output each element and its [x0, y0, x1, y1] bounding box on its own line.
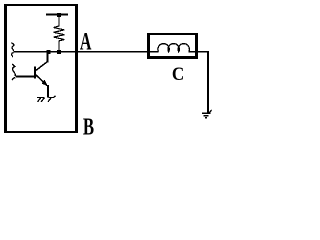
input squiggle base wire — [12, 64, 15, 80]
resistor R1 — [54, 15, 65, 52]
input squiggle node A wire — [11, 43, 14, 58]
block B outline — [4, 4, 78, 133]
svg-text:A: A — [80, 27, 92, 56]
component C box — [147, 33, 198, 59]
junction dot collector — [47, 50, 51, 54]
chassis ground — [37, 96, 55, 102]
inductor coil — [158, 44, 190, 52]
node A wire — [14, 51, 159, 53]
transistor Q1 emitter — [36, 75, 47, 86]
supply rail wire — [46, 14, 68, 16]
output wire vertical — [207, 51, 209, 113]
svg-text:B: B — [83, 115, 94, 140]
output wire horizontal — [189, 51, 209, 53]
base wire — [15, 76, 34, 78]
svg-text:C: C — [172, 63, 184, 84]
emitter ground wire — [47, 85, 49, 98]
junction dot rail — [57, 13, 61, 17]
transistor Q1 collector — [46, 52, 48, 63]
transistor Q1 bar — [34, 66, 36, 78]
earth ground — [202, 110, 212, 118]
junction dot resistor bottom — [57, 50, 61, 54]
transistor Q1 emitter arrow — [42, 80, 48, 87]
